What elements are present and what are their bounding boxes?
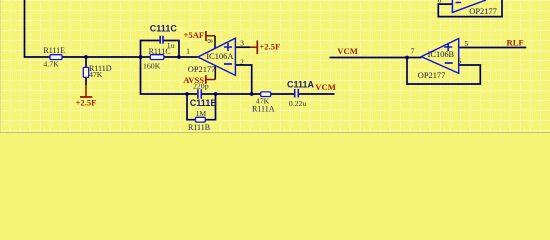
junction at R111D tap	[84, 55, 88, 59]
svg-text:2: 2	[240, 57, 244, 66]
wire: IC106A pin3 stub	[235, 46, 250, 48]
wire: left rail down to bottom net	[141, 57, 197, 94]
svg-text:RLF: RLF	[507, 37, 524, 47]
svg-text:8: 8	[205, 39, 214, 43]
svg-text:R111E: R111E	[43, 46, 65, 55]
svg-text:VCM: VCM	[337, 46, 358, 56]
svg-text:1M: 1M	[195, 109, 206, 118]
svg-text:160K: 160K	[143, 61, 161, 70]
capacitor C111A	[287, 79, 315, 108]
svg-text:OP2177: OP2177	[188, 65, 215, 74]
svg-text:C111A: C111A	[287, 79, 315, 89]
capacitor C111B	[190, 81, 218, 108]
svg-text:+2.5F: +2.5F	[259, 42, 280, 52]
svg-text:IC106B: IC106B	[428, 50, 455, 59]
svg-text:0.22u: 0.22u	[289, 99, 307, 108]
svg-text:7: 7	[411, 46, 415, 55]
svg-text:+5AF: +5AF	[184, 30, 205, 40]
junction at C111B right / R111B	[214, 92, 218, 96]
op-amp IC106B (left-pointing)	[418, 39, 459, 80]
wire: IC106A pin2 feedback drop	[235, 65, 251, 94]
op-amp IC106A (left-pointing)	[188, 38, 236, 75]
wire: left input vertical + top net horizontal to IC106A output	[25, 0, 198, 57]
svg-text:220p: 220p	[193, 81, 209, 90]
resistor R111A	[252, 92, 275, 114]
svg-text:IC106A: IC106A	[206, 52, 233, 61]
power port AVSS (to IC106A pin 4)	[183, 75, 215, 85]
resistor R111C	[143, 47, 171, 71]
resistor R111E	[43, 46, 65, 69]
wire: top-right opamp pin6 stub and feedback loop	[438, 0, 502, 17]
resistor R111B	[188, 109, 210, 132]
svg-text:4.7K: 4.7K	[43, 60, 59, 69]
junction at pin2 drop	[250, 92, 254, 96]
svg-text:OP2177: OP2177	[469, 7, 496, 16]
svg-text:47K: 47K	[89, 70, 103, 79]
power port +2.5F (below R111D)	[76, 85, 97, 108]
junction at C111C left rail	[139, 55, 143, 59]
wire: VCM to IC106B pin7	[330, 57, 422, 59]
svg-text:R111B: R111B	[188, 123, 210, 132]
power port +5AF	[184, 30, 216, 48]
svg-text:VCM: VCM	[315, 82, 336, 92]
wire: bottom net C111B to C111A to VCM	[202, 93, 335, 95]
svg-text:R111A: R111A	[252, 105, 275, 114]
wire: R111B parallel loop	[187, 94, 216, 120]
svg-text:3: 3	[240, 39, 244, 48]
svg-text:6: 6	[438, 0, 442, 4]
svg-text:5: 5	[465, 39, 469, 48]
svg-text:1u: 1u	[167, 41, 175, 50]
junction at IC106B output feedback	[405, 56, 409, 60]
op-amp (top edge, cut off) triangle fragment	[452, 0, 496, 16]
svg-text:OP2177: OP2177	[418, 71, 445, 80]
wire: R111D top lead	[85, 57, 87, 68]
svg-text:C111B: C111B	[190, 98, 218, 108]
pin 4 lead (V- of IC106A)	[214, 66, 216, 80]
svg-text:1: 1	[186, 47, 190, 56]
junction at C111C right rail / pin1	[177, 55, 181, 59]
wire: IC106B feedback loop pin6	[407, 58, 480, 85]
svg-text:6: 6	[458, 57, 462, 66]
svg-text:+2.5F: +2.5F	[76, 98, 97, 108]
resistor R111D (vertical)	[83, 64, 111, 79]
capacitor C111C	[150, 24, 178, 51]
wire: C111C parallel branch rails	[141, 41, 180, 58]
svg-text:C111C: C111C	[150, 24, 178, 34]
power port +2.5F (at IC106A pin3)	[250, 41, 280, 55]
junction at C111B left	[185, 92, 189, 96]
wire: IC106B pin5 to RLF	[459, 47, 527, 49]
wire: R111D bottom lead	[85, 77, 87, 85]
